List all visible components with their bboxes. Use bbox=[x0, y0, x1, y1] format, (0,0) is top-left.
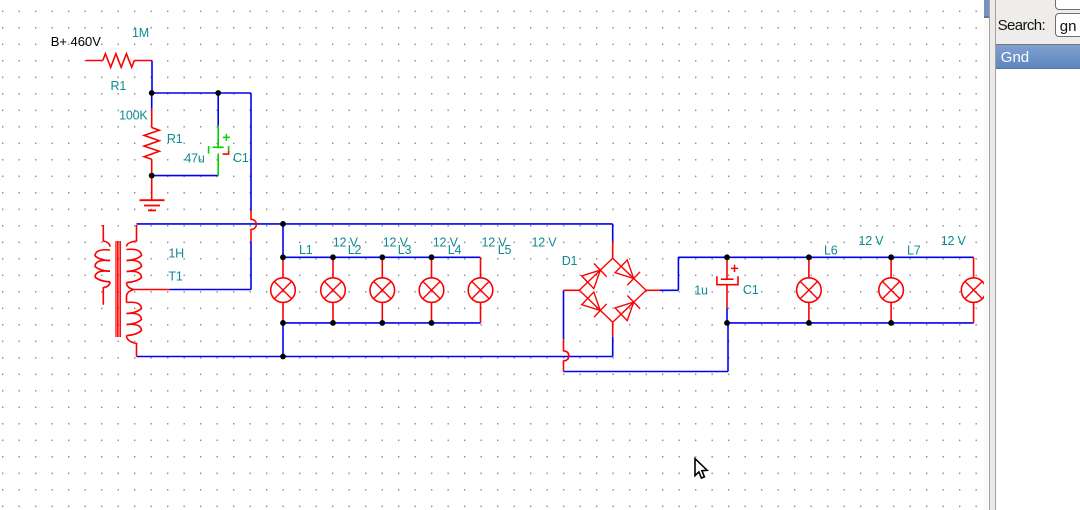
svg-text:R1: R1 bbox=[167, 132, 183, 146]
svg-text:1u: 1u bbox=[694, 284, 708, 298]
svg-text:47u: 47u bbox=[184, 152, 205, 166]
svg-text:L5: L5 bbox=[498, 243, 512, 257]
svg-text:L6: L6 bbox=[824, 244, 838, 258]
svg-text:12 V: 12 V bbox=[532, 235, 558, 249]
svg-text:L1: L1 bbox=[299, 243, 313, 257]
svg-text:100K: 100K bbox=[119, 109, 148, 123]
svg-text:12 V: 12 V bbox=[941, 234, 967, 248]
svg-text:L7: L7 bbox=[907, 244, 921, 258]
svg-text:D1: D1 bbox=[562, 254, 578, 268]
svg-text:L4: L4 bbox=[448, 243, 462, 257]
svg-text:1M: 1M bbox=[132, 26, 149, 40]
svg-text:C1: C1 bbox=[233, 151, 249, 165]
svg-text:12 V: 12 V bbox=[859, 234, 885, 248]
svg-text:L2: L2 bbox=[348, 243, 362, 257]
svg-text:L3: L3 bbox=[398, 243, 412, 257]
svg-text:R1: R1 bbox=[111, 79, 127, 93]
svg-text:C1: C1 bbox=[743, 283, 759, 297]
svg-text:1H: 1H bbox=[168, 247, 184, 261]
svg-text:B+ 460V: B+ 460V bbox=[51, 34, 102, 49]
svg-text:T1: T1 bbox=[168, 269, 182, 283]
